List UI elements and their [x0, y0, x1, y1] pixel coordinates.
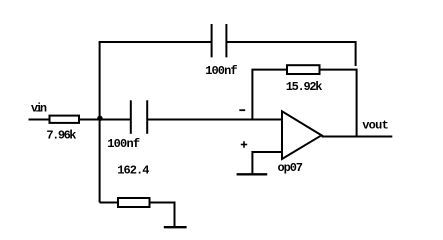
svg-text:7.96k: 7.96k — [46, 129, 76, 143]
svg-text:vout: vout — [362, 118, 389, 132]
svg-text:162.4: 162.4 — [117, 163, 149, 177]
svg-text:100nf: 100nf — [107, 137, 140, 151]
svg-text:op07: op07 — [278, 161, 304, 175]
svg-text:vin: vin — [31, 101, 47, 115]
svg-text:100nf: 100nf — [205, 64, 237, 78]
svg-text:15.92k: 15.92k — [286, 80, 323, 94]
